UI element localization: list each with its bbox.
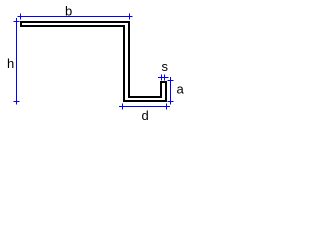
dimension s line	[158, 75, 169, 81]
dimension h line	[14, 18, 20, 105]
svg-text:a: a	[177, 82, 185, 97]
dimension b line	[18, 14, 133, 20]
svg-text:d: d	[142, 108, 149, 123]
svg-text:s: s	[162, 59, 169, 74]
dimension a line	[168, 77, 174, 105]
svg-text:h: h	[7, 56, 14, 71]
profile outer silhouette	[20, 21, 167, 102]
dimension d line	[119, 104, 170, 110]
Z-profile cross-section diagram with dimensions	[0, 0, 200, 128]
profile inner cut (white)	[22, 23, 165, 100]
svg-text:b: b	[65, 4, 72, 19]
